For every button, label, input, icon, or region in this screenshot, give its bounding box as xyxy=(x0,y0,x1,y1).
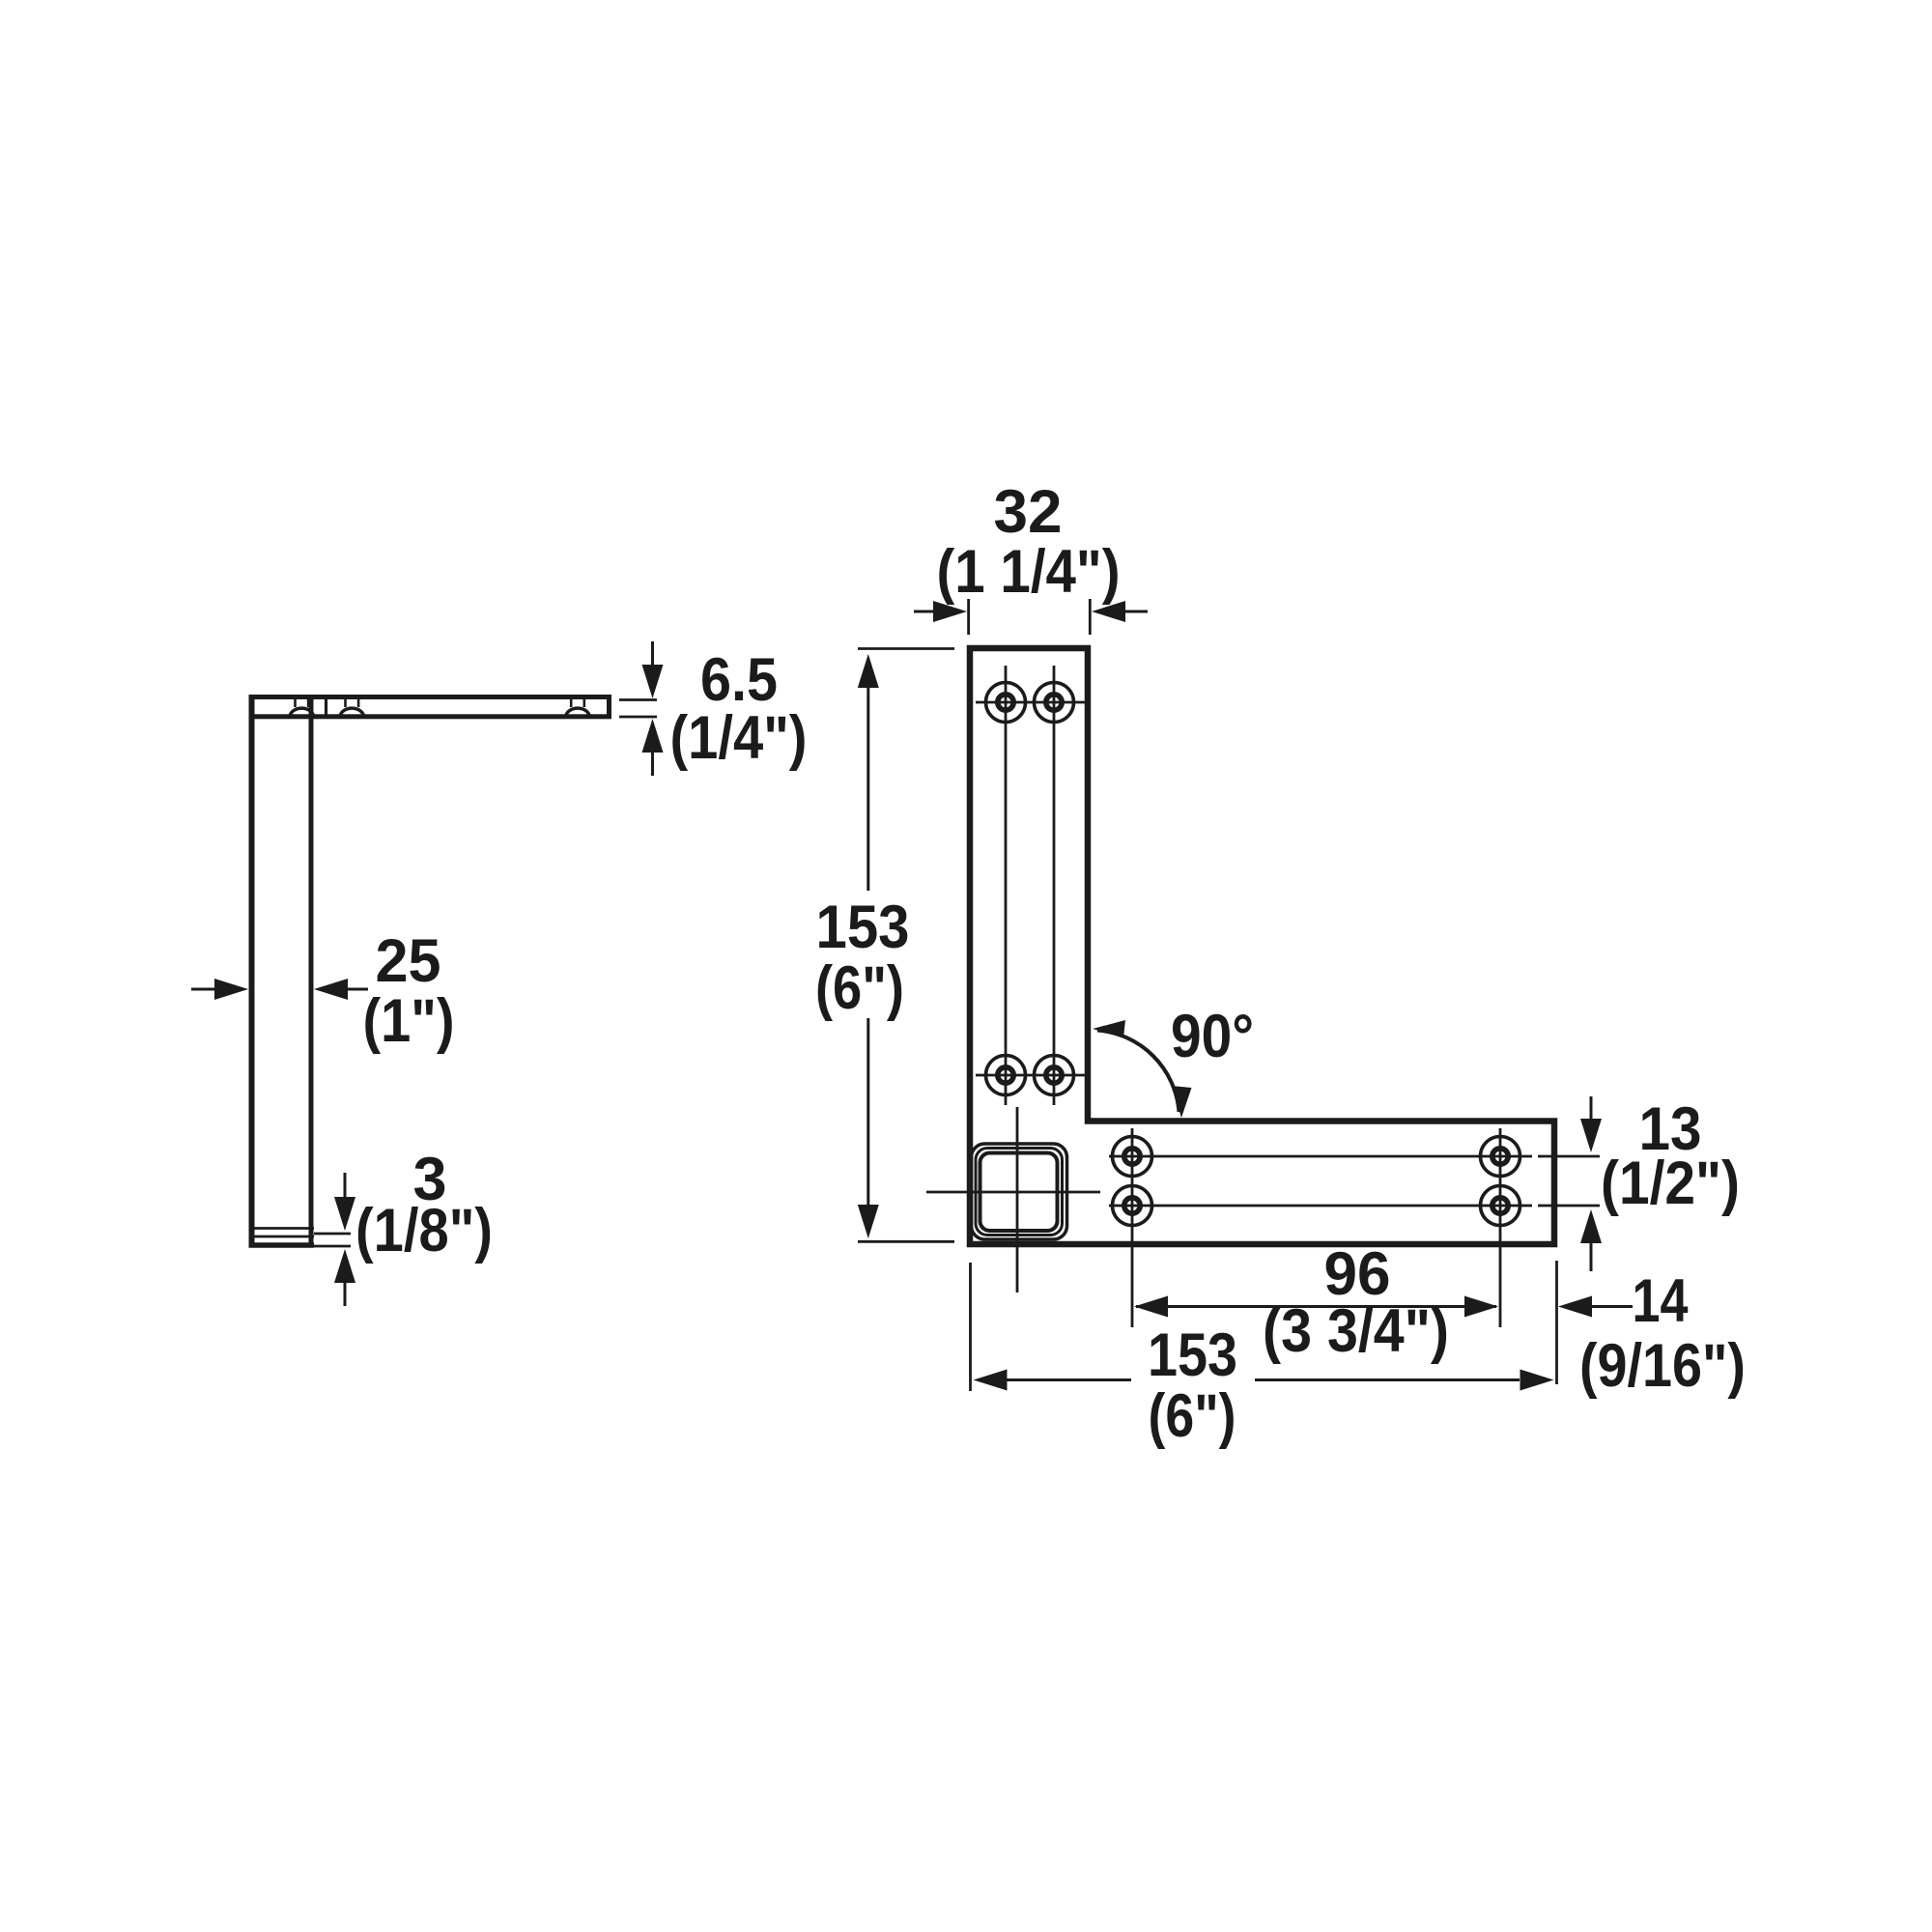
svg-text:(1/8"): (1/8") xyxy=(355,1197,493,1264)
svg-text:(9/16"): (9/16") xyxy=(1579,1332,1746,1400)
svg-text:(6"): (6") xyxy=(815,954,904,1022)
svg-text:90°: 90° xyxy=(1171,1003,1254,1070)
svg-text:(1/2"): (1/2") xyxy=(1601,1150,1740,1217)
svg-text:25: 25 xyxy=(376,927,441,995)
svg-text:32: 32 xyxy=(994,478,1063,546)
svg-text:14: 14 xyxy=(1633,1267,1689,1335)
svg-text:153: 153 xyxy=(816,894,910,961)
svg-text:(3 3/4"): (3 3/4") xyxy=(1263,1297,1449,1365)
svg-text:153: 153 xyxy=(1148,1321,1237,1389)
svg-text:(6"): (6") xyxy=(1149,1382,1236,1450)
svg-text:(1 1/4"): (1 1/4") xyxy=(937,538,1121,606)
svg-text:(1"): (1") xyxy=(363,987,455,1055)
svg-text:(1/4"): (1/4") xyxy=(670,704,808,772)
